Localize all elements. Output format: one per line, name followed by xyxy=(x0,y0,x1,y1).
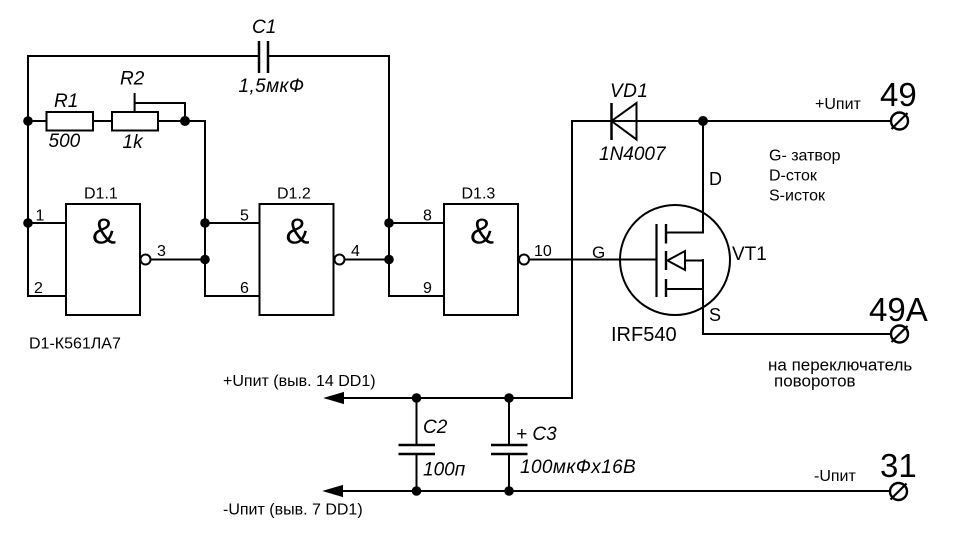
node C3 bottom junction xyxy=(504,486,514,496)
svg-text:+Uпит (выв. 14 DD1): +Uпит (выв. 14 DD1) xyxy=(223,373,376,390)
svg-text:S-исток: S-исток xyxy=(769,188,826,205)
svg-text:поворотов: поворотов xyxy=(774,372,856,391)
svg-text:&: & xyxy=(285,211,309,252)
wire D1.1 pin1 input xyxy=(28,222,66,224)
node C3 top junction xyxy=(504,393,514,403)
wire C1 to right vertical xyxy=(268,55,389,57)
wire D1.1 pin2 input xyxy=(28,295,66,297)
transistor VT1 (IRF540 MOSFET) xyxy=(611,205,767,346)
node pin1 junction xyxy=(23,218,33,228)
svg-text:R1: R1 xyxy=(54,91,78,112)
legend G D S xyxy=(769,148,841,205)
svg-text:D-сток: D-сток xyxy=(769,168,818,185)
wire vertical 2 down xyxy=(204,121,206,296)
wire C2 upper stem xyxy=(416,398,418,444)
wire VT1 drain vertical xyxy=(702,121,704,233)
svg-text:VT1: VT1 xyxy=(732,244,767,265)
terminal 31 xyxy=(880,447,917,500)
wire vertical 3 down xyxy=(388,56,390,296)
terminal 49 xyxy=(880,76,917,130)
svg-text:D1.3: D1.3 xyxy=(462,186,496,203)
svg-text:100мкФх16В: 100мкФх16В xyxy=(520,457,636,478)
resistor R1 xyxy=(47,91,94,152)
svg-text:G- затвор: G- затвор xyxy=(769,148,841,165)
diode VD1 xyxy=(599,81,667,165)
svg-text:S: S xyxy=(709,305,721,325)
wire VT1 source vertical down xyxy=(702,260,704,334)
svg-text:-Uпит (выв. 7 DD1): -Uпит (выв. 7 DD1) xyxy=(223,502,363,519)
svg-text:D1.1: D1.1 xyxy=(84,186,118,203)
svg-text:VD1: VD1 xyxy=(610,81,648,102)
wire top-left horizontal from left vertical to C1 xyxy=(28,55,259,57)
wire C3 lower stem xyxy=(508,455,510,492)
node pin5 junction xyxy=(200,218,210,228)
svg-text:49: 49 xyxy=(880,76,917,113)
wire C3 upper stem xyxy=(508,398,510,444)
node drain junction xyxy=(698,116,708,126)
svg-text:1N4007: 1N4007 xyxy=(599,144,667,165)
wire VD1 row to terminal 49 xyxy=(572,120,891,122)
wire D1.1 output 3 xyxy=(151,259,206,261)
svg-text:D: D xyxy=(709,169,722,189)
svg-text:1: 1 xyxy=(36,208,45,225)
NAND gate D1.1 xyxy=(66,186,151,316)
NAND gate D1.2 xyxy=(260,186,345,316)
wire vertical 4 from VD1 down to +U rail xyxy=(571,121,573,398)
svg-text:9: 9 xyxy=(423,280,432,297)
wire D1.3 output 10 to gate G xyxy=(529,259,657,261)
svg-text:6: 6 xyxy=(240,280,249,297)
wire D1.2 output 4 xyxy=(344,259,389,261)
wire R2 to vertical 2 xyxy=(158,120,205,122)
svg-text:10: 10 xyxy=(534,243,552,260)
wire D1.2 pin5 input xyxy=(205,222,260,224)
wire node to R1 xyxy=(28,120,47,122)
svg-text:+Uпит: +Uпит xyxy=(815,96,862,113)
svg-text:8: 8 xyxy=(423,208,432,225)
svg-text:4: 4 xyxy=(351,243,360,260)
svg-text:49А: 49А xyxy=(869,291,928,328)
node pin8 junction xyxy=(384,218,394,228)
capacitor C3 (electrolytic, +) xyxy=(491,424,636,478)
svg-text:D1.2: D1.2 xyxy=(277,186,311,203)
resistor R2 (trimmer) xyxy=(112,69,158,154)
terminal 49A xyxy=(869,291,928,343)
wire R1 to R2 xyxy=(93,120,112,122)
node R2 output junction xyxy=(180,116,190,126)
power -U rail arrow xyxy=(324,486,343,497)
node out4 junction xyxy=(384,255,394,265)
power +U rail arrow xyxy=(325,393,344,404)
svg-text:+ C3: + C3 xyxy=(516,424,557,445)
svg-text:31: 31 xyxy=(880,447,917,484)
svg-text:2: 2 xyxy=(34,280,43,297)
node R1-R2 junction left xyxy=(23,116,33,126)
wire +U rail xyxy=(340,397,572,399)
wire D1.3 pin8 input xyxy=(389,222,444,224)
svg-text:-Uпит: -Uпит xyxy=(814,468,856,485)
svg-text:IRF540: IRF540 xyxy=(611,324,677,346)
svg-text:1,5мкФ: 1,5мкФ xyxy=(239,76,305,97)
node out3 junction xyxy=(200,255,210,265)
svg-text:R2: R2 xyxy=(120,69,145,90)
svg-text:100п: 100п xyxy=(423,460,466,481)
svg-text:D1-К561ЛА7: D1-К561ЛА7 xyxy=(29,336,121,353)
capacitor C2 xyxy=(399,417,466,481)
wire source to terminal 49A xyxy=(703,333,891,335)
wire D1.3 pin9 input xyxy=(389,295,444,297)
svg-text:&: & xyxy=(470,211,494,252)
svg-text:3: 3 xyxy=(157,243,166,260)
node C2 bottom junction xyxy=(412,486,422,496)
svg-text:C2: C2 xyxy=(423,417,448,438)
wire -U rail to terminal 31 xyxy=(339,490,890,492)
svg-text:5: 5 xyxy=(240,208,249,225)
wire D1.2 pin6 input xyxy=(205,295,260,297)
svg-text:G: G xyxy=(592,243,605,262)
svg-text:&: & xyxy=(92,211,116,252)
wire left vertical rail xyxy=(27,56,29,296)
svg-text:C1: C1 xyxy=(252,17,276,38)
wire R2 wiper tap xyxy=(135,94,185,121)
svg-text:1k: 1k xyxy=(123,132,145,153)
wire C2 lower stem xyxy=(416,455,418,492)
NAND gate D1.3 xyxy=(444,186,529,316)
svg-text:500: 500 xyxy=(49,131,81,152)
capacitor C1 xyxy=(239,17,305,97)
node C2 top junction xyxy=(412,393,422,403)
